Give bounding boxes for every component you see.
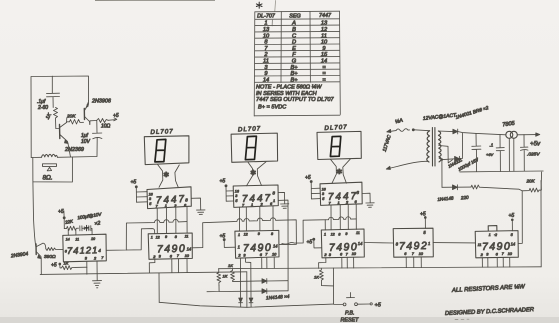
- svg-text:2-60: 2-60: [37, 105, 48, 111]
- decoder U3 7447: [233, 185, 278, 207]
- wire: right riser to supply common: [540, 172, 543, 267]
- U3 +5 feed and left pin stubs: [220, 179, 234, 202]
- transformer T1 secondary: [438, 131, 441, 162]
- wire: U9 pin 3 down: [86, 261, 88, 274]
- svg-text:14: 14: [511, 242, 516, 247]
- wire: U10 bottom pins to bus: [482, 257, 510, 267]
- svg-text:1: 1: [238, 245, 240, 250]
- diode D6 1N4148 (vertical b): [249, 298, 253, 307]
- U9 lower-left 1K pull resistor with +5: [51, 261, 87, 270]
- scan artifact line top edge: [95, 0, 215, 2]
- wire: U9 pin 7 to ground: [96, 261, 98, 280]
- svg-text:+6V: +6V: [486, 152, 494, 157]
- wire: divider bottoms to diode rows: [207, 281, 262, 292]
- ground (U9): [93, 281, 102, 288]
- wire: center tap down to 60Hz feed: [441, 161, 443, 188]
- svg-text:10: 10: [321, 40, 328, 46]
- svg-text:+5: +5: [220, 179, 226, 185]
- svg-text:9: 9: [345, 232, 347, 236]
- svg-text:7447: 7447: [242, 193, 273, 205]
- svg-text:✱: ✱: [163, 170, 169, 179]
- wire: supply common rail: [460, 170, 543, 173]
- resistor 20K (line input): [522, 179, 541, 193]
- wire: U9 74121 output run with hops to U5: [106, 219, 187, 250]
- display DS1 DL707: [144, 128, 189, 164]
- display DS3 DL707: [317, 124, 361, 160]
- wire: U8 bottom pins to bus: [406, 257, 421, 268]
- monostable U9 74121: [63, 234, 107, 262]
- wire: D2 up to +V rail: [460, 133, 463, 159]
- resistor 220 ohm: [437, 185, 522, 202]
- speaker 8 ohm symbol: [43, 164, 57, 182]
- svg-text:7447: 7447: [319, 13, 332, 19]
- svg-text:12: 12: [156, 235, 160, 239]
- svg-text:14: 14: [187, 247, 192, 252]
- wire: cascade U6 to U7 with hops under U4: [282, 217, 357, 244]
- svg-text:B+ = 5VDC: B+ = 5VDC: [258, 105, 287, 111]
- svg-text:+5: +5: [305, 175, 311, 181]
- U6 +5 feed: [220, 234, 236, 248]
- regulator U11 7805: [502, 121, 517, 172]
- wire: U7 bottom pins to bus: [319, 257, 354, 268]
- svg-text:✱: ✱: [336, 167, 342, 176]
- ground (U4): [366, 203, 374, 208]
- pin cross-reference table frame: [254, 11, 340, 116]
- svg-text:1K: 1K: [228, 263, 233, 268]
- wire: oscillator bottom rail: [31, 157, 96, 158]
- wire: U8 7492 to U7 pin 14: [364, 242, 393, 245]
- svg-text:+5: +5: [375, 303, 382, 309]
- svg-text:DL-707: DL-707: [257, 14, 276, 20]
- wire: hook into U5 pin 1: [126, 229, 154, 250]
- svg-text:1K: 1K: [314, 275, 319, 280]
- wire bus: U2 outputs down to U5 (four verticals): [157, 207, 187, 234]
- svg-text:14: 14: [273, 244, 278, 249]
- U7 +5 feed: [307, 238, 322, 248]
- capacitor C4 1000uf/16V: [447, 133, 481, 171]
- svg-text:1: 1: [238, 233, 240, 237]
- svg-text:10Ω: 10Ω: [101, 124, 111, 130]
- oscillator outer wire loop: [31, 76, 89, 158]
- resistor 1K (U7 reset): [314, 268, 333, 286]
- resistor 10 ohm output: [97, 119, 111, 130]
- display DS2 DL707: [231, 125, 278, 162]
- svg-text:RESET: RESET: [341, 318, 360, 323]
- svg-text:.025V: .025V: [527, 152, 540, 158]
- wire/arrow: oscillator +5 feed: [108, 113, 119, 121]
- counter U6 7490: [235, 230, 279, 258]
- svg-text:1K: 1K: [64, 261, 69, 266]
- wire: speaker loop: [33, 157, 73, 182]
- svg-text:9: 9: [165, 235, 167, 239]
- svg-text:220: 220: [460, 195, 470, 201]
- svg-text:B+: B+: [290, 65, 298, 71]
- transistor Q2 2N3906: [84, 99, 111, 125]
- svg-text:11: 11: [75, 237, 79, 241]
- svg-text:D: D: [292, 40, 296, 46]
- svg-text:1: 1: [338, 200, 340, 205]
- svg-text:+5v: +5v: [530, 141, 541, 148]
- U9 timing RC: +5 feed: [58, 209, 65, 229]
- svg-text:1: 1: [324, 232, 326, 236]
- svg-text:B+: B+: [290, 77, 298, 83]
- wire: timing RC into U9 top pins: [68, 228, 92, 235]
- svg-text:+5: +5: [51, 263, 57, 269]
- wire: secondary top to D1: [438, 130, 452, 133]
- wire: reset rail (bottom): [159, 302, 333, 307]
- wire: U6 bottom pins 6,7,10 to bus: [262, 258, 275, 269]
- divider U8 7492: [393, 228, 433, 257]
- svg-text:DL707: DL707: [150, 128, 173, 136]
- decoder U2 7447: [147, 187, 191, 209]
- wire: U5 bottom pins to lower bus: [149, 259, 187, 273]
- pin table text: [257, 13, 332, 83]
- svg-text:2N2369: 2N2369: [64, 147, 84, 153]
- resistor 1K (U6 reset divider b): [228, 263, 235, 282]
- wire: U10 7490 to U8: [433, 242, 475, 244]
- svg-text:390Ω: 390Ω: [44, 254, 56, 260]
- wire: oscillator output down left side to Q3 base: [33, 182, 36, 248]
- capacitor 1uf 10V (osc emitter bypass): [81, 121, 102, 157]
- svg-text:14: 14: [358, 241, 363, 246]
- svg-text:14: 14: [263, 77, 269, 83]
- ground (U3): [281, 204, 289, 209]
- ground (U2): [197, 210, 206, 215]
- resistor 1K (osc base bias, vertical): [45, 108, 58, 129]
- wire: cascade U5 to U6 with hops under U3: [192, 218, 296, 248]
- svg-text:A: A: [291, 21, 296, 27]
- capacitor C6 .025: [520, 135, 540, 171]
- wire: U10 pin14 up right side: [518, 191, 522, 243]
- stray pen line above table: [274, 1, 277, 12]
- wire: CT junction to D2 anode: [443, 158, 455, 161]
- svg-text:+5: +5: [307, 240, 313, 246]
- wire U3 pin8 to ground: [278, 192, 284, 203]
- table note text: [256, 85, 335, 111]
- svg-text:E: E: [292, 46, 296, 52]
- AC line input arrows 117VAC: [382, 129, 428, 169]
- transistor Q3 2N3904 (input): [10, 243, 46, 259]
- transformer T1 primary: [427, 131, 430, 162]
- fuse 1/2A: [394, 116, 429, 131]
- resistor 20K (osc feedback): [66, 114, 84, 125]
- wire: Q1 emitter down to bottom rail: [68, 144, 71, 158]
- svg-text:IN SERIES WITH EACH: IN SERIES WITH EACH: [256, 91, 318, 97]
- counter U7 7490: [321, 229, 364, 258]
- decoder U4 7447: [320, 182, 362, 205]
- svg-text:14: 14: [66, 238, 70, 242]
- U8 +5 feed: [420, 212, 426, 229]
- wire: main bottom bus (right): [219, 267, 542, 269]
- svg-text:7490: 7490: [243, 242, 273, 255]
- svg-text:7447 SEG OUTPUT TO DL707: 7447 SEG OUTPUT TO DL707: [256, 97, 335, 103]
- diode D3 1N4148 (horizontal upper): [262, 279, 288, 284]
- wire: hook from cascade line into U7 pin 1: [324, 220, 326, 230]
- wire: Q2 collector to output node: [90, 121, 97, 125]
- pin table asterisk marker: [256, 2, 262, 8]
- svg-text:SEG: SEG: [289, 13, 300, 19]
- svg-text:·2: ·2: [494, 233, 497, 237]
- svg-text:15: 15: [321, 52, 328, 58]
- svg-text:1: 1: [489, 233, 491, 237]
- svg-text:DL707: DL707: [324, 124, 348, 132]
- svg-text:1: 1: [273, 198, 275, 203]
- svg-text:9: 9: [258, 232, 260, 236]
- svg-text:P.B.: P.B.: [345, 311, 355, 317]
- svg-text:8Ω.: 8Ω.: [43, 175, 53, 182]
- svg-text:12: 12: [244, 233, 248, 237]
- svg-text:11: 11: [321, 33, 327, 39]
- wire: U6 pins 2,3 down through diodes to reset rail: [240, 258, 251, 298]
- svg-text:1: 1: [251, 202, 253, 207]
- svg-text:20K: 20K: [526, 179, 536, 184]
- svg-text:DL707: DL707: [238, 125, 262, 133]
- svg-text:13: 13: [263, 27, 270, 33]
- svg-text:F: F: [292, 52, 296, 58]
- transformer T1 core: [432, 128, 435, 167]
- svg-text:20K: 20K: [66, 114, 76, 120]
- svg-text:14: 14: [321, 59, 327, 65]
- svg-text:.1: .1: [490, 143, 494, 148]
- svg-text:2N3906: 2N3906: [91, 99, 111, 105]
- transistor Q1 2N2369: [56, 123, 84, 154]
- wire: +V rail to regulator: [458, 132, 506, 135]
- wire: drop from lower bus to reset rail: [158, 273, 160, 302]
- wire: Q3 emitter to lower bus: [40, 259, 42, 275]
- wire funnel DS3 to U4 with asterisk: [331, 159, 351, 184]
- svg-text:G: G: [292, 59, 297, 65]
- svg-text:B+: B+: [290, 71, 298, 77]
- svg-text:13: 13: [321, 21, 328, 27]
- capacitor C5 .1: [486, 135, 504, 172]
- wire funnel DS2 to U3 with asterisk: [247, 162, 267, 186]
- svg-text:B: B: [292, 27, 296, 33]
- wire/arrow: +5V output: [517, 133, 541, 148]
- wire bus: U3 outputs down to U6 (four verticals): [240, 206, 274, 231]
- diode D7 1N4148: [453, 185, 472, 190]
- wire U4 pin8 to ground: [362, 193, 370, 203]
- wire: Q1 collector up: [66, 118, 68, 123]
- svg-text:1: 1: [428, 241, 430, 246]
- svg-text:1: 1: [151, 236, 153, 240]
- counter U5 7490: [148, 233, 192, 259]
- svg-text:11: 11: [185, 235, 189, 239]
- junction dot: transformer center tap: [441, 158, 443, 160]
- wire: lower bus (left): [40, 272, 247, 275]
- wire funnel DS1 to U2 with asterisk: [158, 165, 180, 188]
- wire U2 pin8 to ground: [191, 198, 200, 210]
- U4 +5 feed and left pin stubs: [305, 175, 321, 199]
- counter U10 7490: [475, 226, 518, 258]
- svg-text:1: 1: [264, 21, 267, 27]
- svg-text:12: 12: [331, 233, 335, 237]
- U2 +5 feed and left pin stubs: [131, 180, 148, 203]
- wire bus: U4 outputs down to U7 (four verticals): [331, 204, 356, 230]
- svg-text:1K: 1K: [223, 274, 228, 279]
- diode D1 1N4001: [453, 129, 458, 134]
- resistor 22K (timing): [64, 218, 79, 230]
- svg-text:11: 11: [478, 243, 482, 247]
- diode D2 1N4001: [455, 156, 460, 161]
- svg-text:+5: +5: [58, 209, 64, 215]
- wire: junction drop x247: [246, 272, 248, 308]
- svg-text:10V: 10V: [81, 139, 91, 145]
- svg-text:×2: ×2: [94, 221, 101, 228]
- capacitor C .1uf top left: [37, 76, 60, 111]
- svg-text:7447: 7447: [156, 194, 187, 207]
- wire: secondary bottom to CT junction: [439, 158, 442, 159]
- svg-text:+5: +5: [509, 213, 515, 219]
- U10 +5 feed: [509, 213, 515, 231]
- wire: reset feed drop to pushbutton: [332, 268, 334, 304]
- pushbutton PB reset: [334, 293, 382, 323]
- svg-text:+5: +5: [113, 113, 119, 119]
- resistor 1K (U6 reset divider a): [217, 269, 228, 286]
- svg-text:10: 10: [263, 33, 270, 39]
- inductor / coil in osc bottom rail: [42, 154, 58, 157]
- svg-text:11: 11: [356, 231, 360, 235]
- svg-text:+5: +5: [131, 180, 137, 186]
- svg-text:12: 12: [321, 27, 328, 33]
- svg-text:1: 1: [165, 203, 167, 208]
- wire: U3 spare output down right side to diodes: [278, 200, 288, 291]
- capacitor 100uf x2 (timing, two in series): [77, 212, 103, 231]
- svg-text:NOTE - PLACE 560Ω ¼W: NOTE - PLACE 560Ω ¼W: [256, 85, 322, 91]
- svg-text:✱: ✱: [250, 168, 256, 177]
- wire: secondary mid tap loop: [439, 146, 453, 163]
- diode D5 1N4148 (vertical a): [239, 298, 243, 307]
- resistor 390 ohm (Q3 to U9): [44, 248, 63, 261]
- svg-text:11: 11: [263, 59, 269, 65]
- wire: diode line feed (60Hz): [442, 186, 452, 188]
- diode D4 1N4148 (horizontal lower): [262, 289, 288, 294]
